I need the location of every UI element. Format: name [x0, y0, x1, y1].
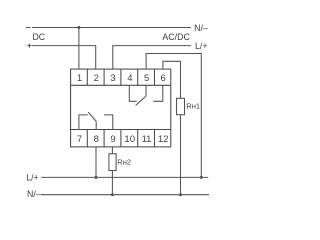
terminal strip bottom row top edge	[71, 129, 171, 131]
svg-text:6: 6	[161, 73, 166, 84]
svg-text:5: 5	[144, 73, 149, 84]
svg-text:11: 11	[142, 134, 152, 145]
svg-text:Rн2: Rн2	[117, 157, 131, 166]
wire: terminal 8 down to bottom L/+ bus	[95, 147, 97, 178]
terminal divider bottom 10/11	[137, 130, 139, 147]
svg-text:L/+: L/+	[195, 41, 207, 51]
junction dot Rh2 lead on bottom N/- bus	[111, 193, 114, 196]
resistor Rh2	[109, 154, 116, 171]
relay contact lower: fixed seat from terminal 7	[79, 115, 88, 130]
label plus polarity mark	[27, 44, 31, 48]
device body outline	[71, 69, 171, 147]
terminal divider bottom 7/8	[86, 130, 88, 147]
relay contact upper: movable blade from terminal 5	[136, 85, 146, 105]
terminal divider top 2/3	[103, 69, 105, 85]
wire: bottom N/- bus line	[41, 194, 209, 196]
terminal divider bottom 11/12	[154, 130, 156, 147]
resistor Rh1	[177, 98, 185, 114]
terminal divider bottom 9/10	[120, 130, 122, 147]
svg-text:1: 1	[77, 73, 82, 84]
svg-text:9: 9	[110, 134, 115, 145]
wire: terminal 5 up and over to right side	[146, 54, 201, 178]
junction dot right drop on bottom L/+ bus	[200, 176, 203, 179]
junction dot terminal 8 lead on bottom L/+ bus	[95, 176, 98, 179]
junction dot Rh1 lead on bottom N/- bus	[179, 193, 182, 196]
svg-text:DC: DC	[32, 32, 45, 42]
svg-text:4: 4	[127, 73, 132, 84]
svg-text:2: 2	[94, 73, 99, 84]
wire: resistor Rh2 down to bottom N/- bus	[111, 171, 113, 195]
svg-text:L/+: L/+	[26, 173, 38, 183]
wire: bottom L/+ bus line	[41, 176, 208, 178]
junction dot on N/- bus at terminal 1 drop	[77, 26, 80, 29]
wire: top DC + line to terminal 2	[32, 46, 96, 69]
terminal divider top 4/5	[137, 69, 139, 85]
terminal divider bottom 8/9	[103, 130, 105, 147]
terminal divider top 3/4	[120, 69, 122, 85]
svg-text:8: 8	[94, 134, 99, 145]
wire: terminal 6 up to resistor Rh1	[163, 61, 181, 99]
svg-text:N/–: N/–	[194, 23, 208, 33]
terminal divider top 1/2	[86, 69, 88, 85]
svg-text:3: 3	[110, 73, 115, 84]
wire: top N/- bus line	[32, 27, 191, 29]
relay contact upper: fixed seat from terminal 6	[153, 85, 163, 101]
relay contact lower: fixed seat from terminal 9	[104, 115, 113, 130]
relay contact upper: fixed seat from terminal 4	[129, 85, 136, 101]
svg-text:12: 12	[158, 134, 169, 145]
wire: terminal 1 to N/- bus	[78, 28, 80, 70]
svg-text:Rн1: Rн1	[186, 102, 200, 111]
svg-text:10: 10	[124, 134, 135, 145]
svg-text:N/–: N/–	[27, 189, 41, 199]
wire: top AC/DC L/+ line from terminal 3	[113, 46, 191, 69]
svg-text:AC/DC: AC/DC	[162, 32, 190, 42]
terminal strip top row bottom edge	[71, 84, 171, 86]
svg-text:7: 7	[77, 134, 82, 145]
wire: terminal 9 down to resistor Rh2	[111, 147, 113, 154]
wire: resistor Rh1 down to bottom N/- bus	[180, 115, 182, 195]
relay contact lower: movable blade from terminal 8	[88, 112, 96, 129]
label: minus polarity mark	[26, 27, 31, 29]
terminal divider top 5/6	[154, 69, 156, 85]
